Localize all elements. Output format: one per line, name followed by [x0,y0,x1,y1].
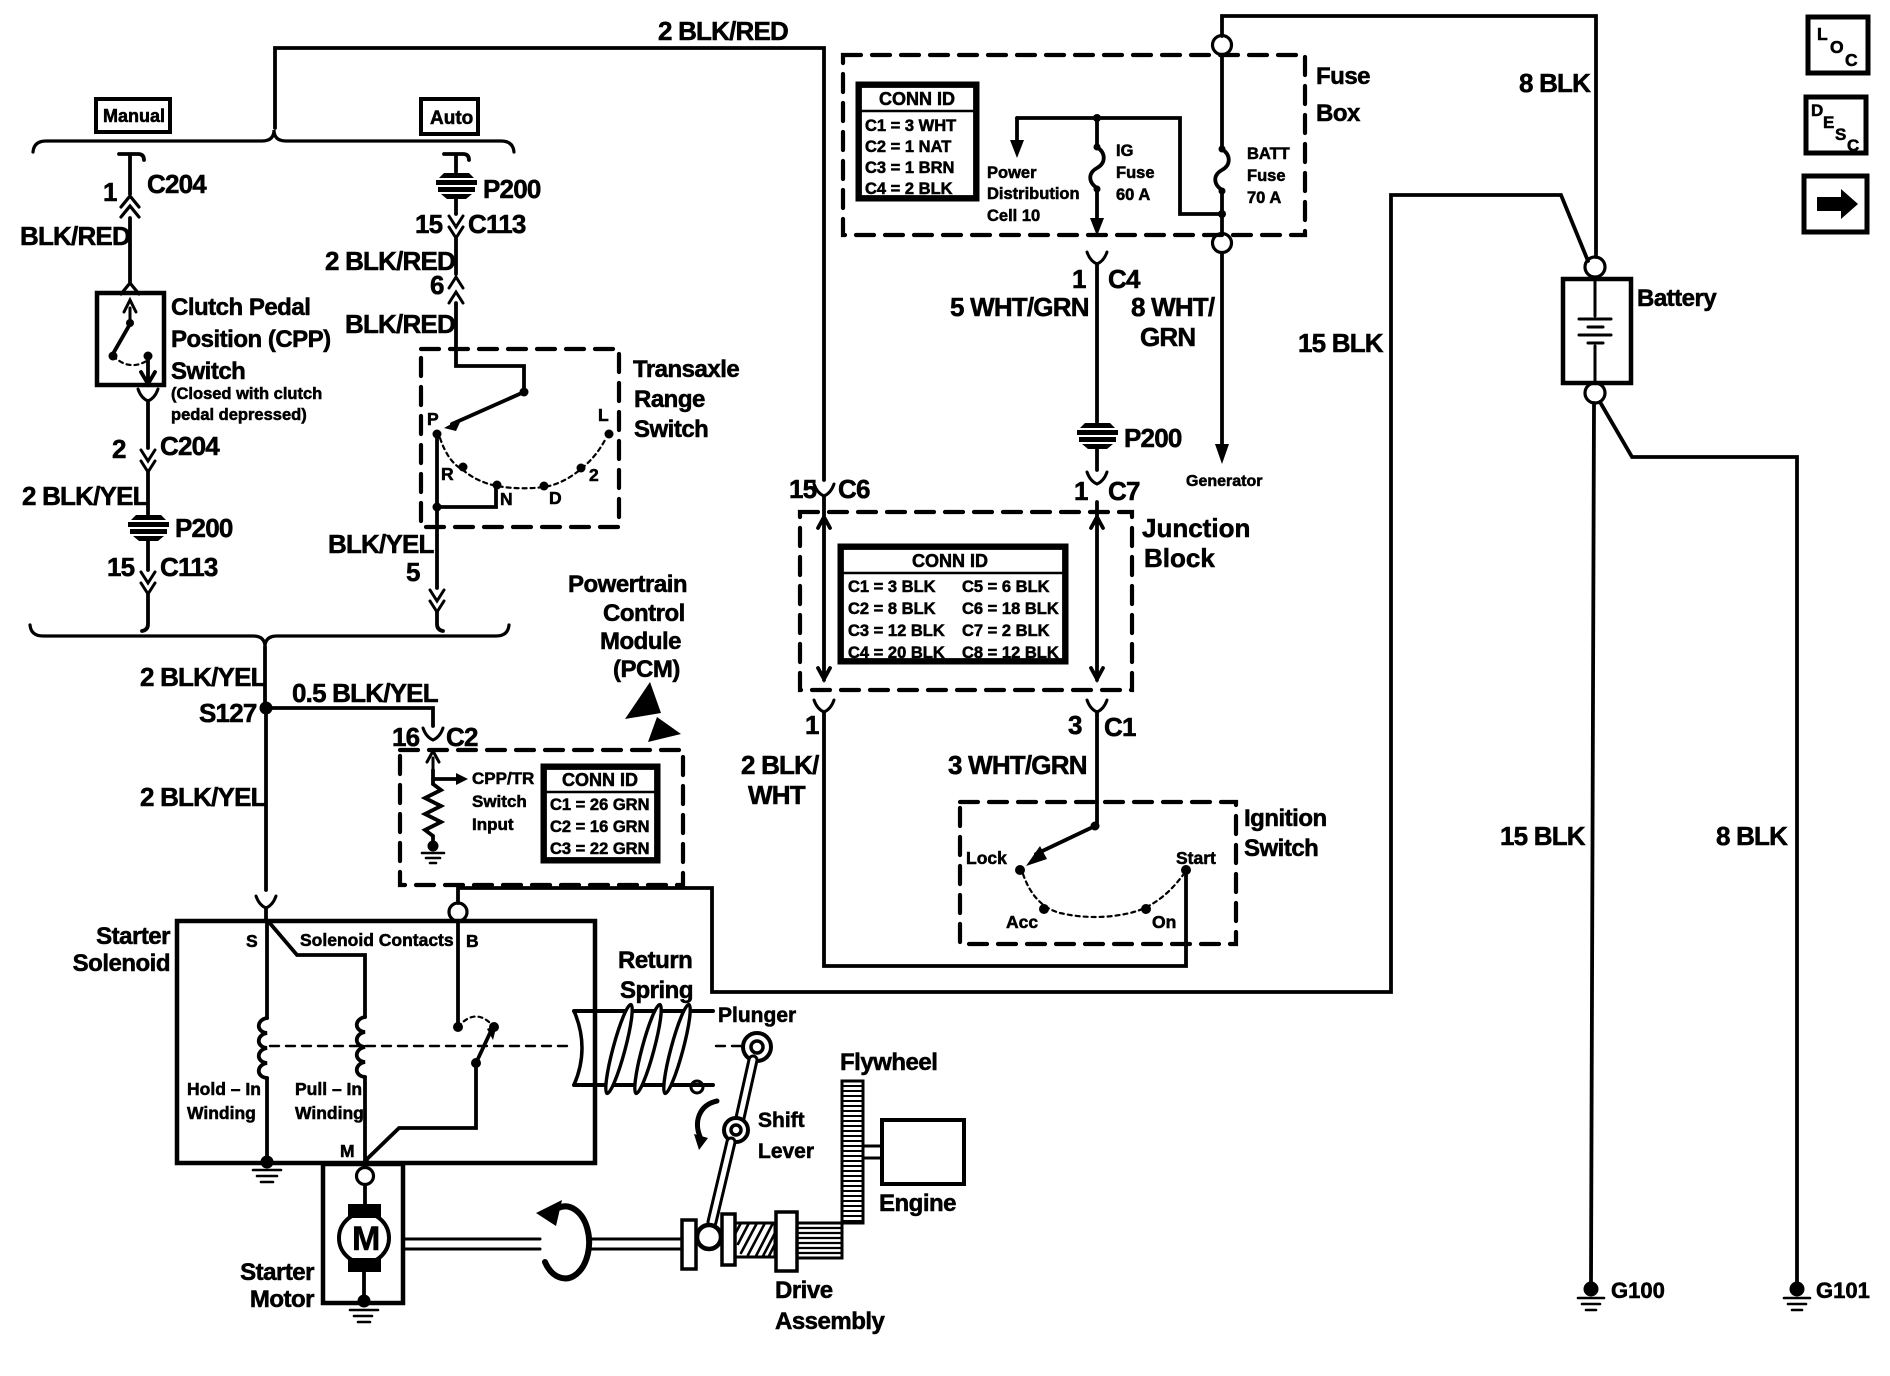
PCM internal ground symbol [422,853,444,863]
svg-text:B: B [466,931,479,951]
wire 0.5 BLK/YEL branch [266,708,433,726]
svg-text:Power: Power [987,164,1037,182]
svg-text:C204: C204 [147,169,207,199]
battery bottom circle [1585,383,1605,403]
svg-text:C6: C6 [838,474,870,504]
svg-text:BLK/RED: BLK/RED [20,221,130,251]
svg-text:CONN ID: CONN ID [912,551,988,571]
svg-text:8 BLK: 8 BLK [1716,821,1788,851]
svg-text:O: O [1830,37,1844,57]
pull-in winding to M [363,1077,367,1161]
svg-text:Lever: Lever [758,1140,814,1163]
svg-text:15 BLK: 15 BLK [1500,821,1586,851]
svg-text:M: M [352,1220,380,1258]
svg-text:1: 1 [805,710,819,740]
svg-text:Block: Block [1144,543,1215,573]
pull-in winding coil [357,1017,365,1077]
svg-text:Switch: Switch [1244,835,1318,862]
B terminal wire to fixed contact [456,921,460,1022]
CPP switch right contact dot [144,352,153,361]
label Ignition Switch [1244,805,1327,862]
label Powertrain Control Module (PCM) [568,571,687,683]
svg-text:IG: IG [1116,142,1133,160]
wire BLK/RED into transaxle range switch [456,303,524,388]
junction dot on P output [433,503,442,512]
solenoid plunger dashed centerline [270,1045,744,1047]
svg-text:Plunger: Plunger [718,1004,796,1027]
label Drive Assembly [775,1277,886,1335]
svg-text:L: L [1817,24,1828,44]
motor brush lower [348,1258,381,1272]
wire into lower brace [142,594,148,631]
Manual option box [96,99,170,132]
drive collar right [722,1214,735,1265]
DESC page icon [1806,97,1866,155]
svg-text:Switch: Switch [634,416,708,443]
svg-text:Drive: Drive [775,1277,833,1304]
wire 2 BLK/WHT [824,712,1186,966]
terminal Lock dot [1015,865,1025,875]
terminal Acc dot [1039,904,1049,914]
junction block left pass-through wire [818,496,830,680]
drive collar left [682,1220,696,1269]
connector C113 pin 15 arrows (Manual) [141,572,155,594]
chevrons at CPP box entry [121,283,139,294]
svg-text:15 BLK: 15 BLK [1298,328,1384,358]
svg-text:5: 5 [406,557,420,587]
svg-text:Powertrain: Powertrain [568,571,687,598]
svg-text:C: C [1847,136,1859,155]
svg-text:C7: C7 [1108,476,1140,506]
svg-text:8 WHT/: 8 WHT/ [1131,292,1215,322]
label CPP/TR Switch Input [472,769,534,834]
label Power Distribution Cell 10 [987,164,1080,225]
connector pin 5 arrows [430,590,444,612]
svg-text:C2 = 16 GRN: C2 = 16 GRN [550,818,650,836]
svg-text:Spring: Spring [620,977,693,1004]
svg-text:15: 15 [107,552,135,582]
wire 2 BLK/YEL from brace to S127 [263,647,267,702]
hold-in winding to ground [265,1078,269,1162]
svg-text:1: 1 [103,177,117,207]
label IG Fuse 60 A [1116,142,1155,204]
svg-text:Position (CPP): Position (CPP) [171,326,331,353]
wire below grommet (Auto) [454,199,458,214]
svg-text:C1: C1 [1104,712,1136,742]
svg-text:C113: C113 [160,552,218,582]
CPP switch left contact dot [109,352,118,361]
svg-text:Module: Module [600,628,681,655]
svg-text:Control: Control [603,600,685,627]
pivot rotation arrow [698,1101,717,1139]
solenoid case ground dot [261,1156,274,1169]
svg-text:(Closed with clutch: (Closed with clutch [171,385,322,403]
M terminal circle [357,1168,374,1185]
svg-text:Winding: Winding [187,1103,256,1123]
grommet P200 (Auto branch) [436,173,477,199]
label Junction Block [1142,513,1250,573]
connector C204 pin 2 female end [138,389,158,401]
wire battery feed into BATT fuse [1220,55,1224,146]
svg-text:L: L [598,405,609,425]
wire 3 WHT/GRN [1095,712,1099,826]
label Return Spring [618,947,693,1004]
shift lever upper arm [740,1060,753,1118]
svg-text:Switch: Switch [171,358,245,385]
motor ground dot [358,1295,371,1308]
wire 5 WHT/GRN [1095,264,1099,422]
svg-text:2 BLK/YEL: 2 BLK/YEL [140,662,267,692]
flywheel to engine shaft [863,1146,882,1158]
label Shift Lever [758,1109,814,1163]
svg-text:Starter: Starter [96,923,170,950]
shaft rotation arrow [545,1206,589,1278]
wire 2 BLK/YEL below CPP [146,401,150,448]
return spring coils [601,1003,694,1095]
label BATT Fuse 70 A [1247,145,1290,207]
svg-text:C113: C113 [468,209,526,239]
svg-text:Return: Return [618,947,692,974]
connector C6 pin 15 female end [814,484,834,496]
connector C4 pin 1 female end [1087,252,1107,264]
label Starter Motor [240,1259,314,1313]
solenoid ground symbol [253,1170,281,1182]
svg-text:1: 1 [1074,476,1088,506]
fuse BATT 70A element [1215,149,1229,190]
Auto option box [421,99,478,134]
svg-text:Box: Box [1316,100,1361,127]
options brace (Manual/Auto bus) [33,130,514,152]
svg-text:Junction: Junction [1142,513,1250,543]
svg-text:3 WHT/GRN: 3 WHT/GRN [948,750,1087,780]
svg-text:E: E [1823,113,1834,132]
movable contact arm with arrow [476,1033,490,1063]
plunger pivot circle [743,1033,771,1061]
hold-in winding coil [259,1018,267,1078]
fuse box internal bus wire [1017,118,1219,214]
IG fuse output arrow through box bottom [1095,189,1099,218]
svg-text:Solenoid Contacts: Solenoid Contacts [300,930,454,950]
ignition switch wiper dot [1091,822,1100,831]
fuse IG 60A element [1095,118,1099,144]
terminal N dot [493,481,502,490]
svg-text:0.5 BLK/YEL: 0.5 BLK/YEL [292,678,439,708]
wire BLK/YEL out of transaxle switch [435,507,439,588]
shift lever pivot circle [724,1118,748,1142]
svg-text:C204: C204 [160,431,220,461]
svg-text:C1 = 3 BLK: C1 = 3 BLK [848,578,936,596]
connector pin 6 chevrons [449,277,463,303]
engine block [882,1120,964,1184]
CPP switch dashed travel arc [113,356,148,365]
next-page arrow icon [1804,176,1867,232]
terminal P dot [433,430,442,439]
connector female end at solenoid S [256,896,276,908]
drive helix spline [735,1223,775,1257]
wire to grommet P200 [146,472,150,514]
svg-text:C1 = 3 WHT: C1 = 3 WHT [865,117,956,135]
svg-text:Battery: Battery [1637,285,1717,312]
svg-text:2 BLK/: 2 BLK/ [741,750,819,780]
grommet P200 (Manual branch) [128,515,169,541]
svg-text:GRN: GRN [1140,322,1195,352]
svg-text:2 BLK/YEL: 2 BLK/YEL [22,481,149,511]
svg-text:2 BLK/RED: 2 BLK/RED [658,16,788,46]
hold-in winding wire [265,921,269,1018]
battery case [1563,279,1631,383]
grommet P200 (WHT/GRN wire) [1077,423,1118,449]
svg-text:Cell 10: Cell 10 [987,207,1040,225]
svg-text:M: M [340,1141,355,1161]
svg-text:Start: Start [1176,848,1216,868]
svg-text:3: 3 [1068,710,1082,740]
battery top circle [1585,257,1605,277]
BATT fuse output junction dot [1218,210,1226,218]
S feed to windings [268,921,365,1017]
svg-text:2: 2 [112,434,126,464]
connector pin 1 lower female end [814,700,834,712]
svg-text:Hold – In: Hold – In [187,1079,261,1099]
CPP switch internal: input arrow [124,300,136,324]
svg-text:C2 = 1 NAT: C2 = 1 NAT [865,138,951,156]
svg-text:2: 2 [589,465,599,485]
return spring body [574,1011,713,1085]
svg-text:Fuse: Fuse [1316,63,1370,90]
svg-text:CONN ID: CONN ID [562,770,638,790]
svg-text:C2 = 8 BLK: C2 = 8 BLK [848,600,936,618]
connector C1 pin 3 female end [1087,700,1107,712]
connector C204 pin 2 arrows [141,450,155,472]
svg-text:BATT: BATT [1247,145,1290,163]
svg-text:G101: G101 [1816,1278,1870,1303]
wire 2 BLK/RED (top feed from junction block C6 to Manual/Auto brace) [275,48,824,480]
connector C204 chevrons [121,196,139,217]
svg-text:Flywheel: Flywheel [840,1049,937,1076]
svg-text:P200: P200 [1124,423,1182,453]
svg-text:C4 = 20 BLK: C4 = 20 BLK [848,644,945,662]
svg-text:Manual: Manual [103,106,165,126]
svg-text:16: 16 [392,722,420,752]
ground G100 [1578,1282,1604,1311]
PCM internal node to CPP/TR input arrow [433,777,456,781]
svg-text:60 A: 60 A [1116,186,1150,204]
ignition dashed travel arc [1023,874,1183,917]
flywheel ring gear [842,1081,863,1223]
motor ground symbol [350,1310,378,1322]
PCM input wire with arrow [427,751,439,770]
clutch pedal position switch box [97,293,164,385]
svg-text:P: P [427,409,439,429]
ESD sensitivity symbol [625,682,681,742]
fuse box dashed border [843,55,1305,235]
wire BLK/RED to CPP switch [128,218,132,282]
terminal On dot [1141,904,1151,914]
wire below grommet to C7 [1095,449,1099,470]
svg-text:Distribution: Distribution [987,185,1080,203]
fuse box CONN ID table [858,84,977,199]
svg-text:Fuse: Fuse [1116,164,1155,182]
svg-text:S: S [1835,125,1846,144]
svg-text:8 BLK: 8 BLK [1519,68,1591,98]
svg-text:C4: C4 [1108,264,1141,294]
svg-text:Generator: Generator [1186,473,1262,490]
wire from P to N jumper [437,434,496,507]
shift lever ball end [697,1225,721,1249]
splice S127 dot [260,702,273,715]
svg-text:C4 = 2 BLK: C4 = 2 BLK [865,180,953,198]
connector terminal bar (Auto branch) [444,154,469,160]
svg-text:Motor: Motor [250,1286,314,1313]
PCM pull-up resistor [425,770,441,842]
svg-text:C8 = 12 BLK: C8 = 12 BLK [962,644,1059,662]
motor wire to ground [362,1272,366,1298]
svg-text:C3 = 12 BLK: C3 = 12 BLK [848,622,945,640]
wire pin5 into lower brace [437,612,443,631]
svg-text:C5 = 6 BLK: C5 = 6 BLK [962,578,1050,596]
B terminal circle [449,903,467,921]
PCM CONN ID table [543,766,658,861]
transaxle switch rotor dot [520,388,529,397]
svg-text:CONN ID: CONN ID [879,89,955,109]
fixed contact dot (B) [453,1022,463,1032]
svg-text:P200: P200 [175,513,233,543]
svg-text:Transaxle: Transaxle [633,356,739,383]
svg-text:Winding: Winding [295,1103,364,1123]
label 8 WHT/GRN [1131,292,1215,352]
junction dot at IG fuse tap [1093,114,1101,122]
svg-text:Switch: Switch [472,792,527,811]
return spring end circle [691,1081,703,1093]
svg-text:P200: P200 [483,174,541,204]
wire BLK/RED (Manual branch upper) [128,156,132,194]
svg-text:1: 1 [1072,264,1086,294]
label Transaxle Range Switch [633,356,739,443]
svg-text:On: On [1152,912,1176,932]
svg-text:S127: S127 [199,698,257,728]
connector C7 pin 1 female end [1087,472,1107,484]
svg-text:Pull – In: Pull – In [295,1079,362,1099]
wire 8 BLK battery negative to G101 [1600,402,1797,1282]
label 2 BLK/WHT [741,750,819,810]
label Hold-In Winding [187,1079,261,1123]
starter motor box [323,1164,403,1303]
svg-text:G100: G100 [1611,1278,1665,1303]
drive pinion hub [776,1212,797,1271]
svg-text:BLK/YEL: BLK/YEL [328,529,435,559]
terminal L dot [605,430,614,439]
wire 15 BLK battery to solenoid B [458,195,1588,992]
shift lever lower arm [712,1142,731,1222]
motor brush upper [348,1204,381,1218]
label Pull-In Winding [295,1079,364,1123]
wire BATT fuse to bottom circle [1220,191,1224,233]
junction block right pass-through wire [1091,502,1103,680]
terminal D dot [540,482,549,491]
CPP switch movable arm [114,324,130,352]
LOC page icon [1808,17,1868,73]
motor armature circle [339,1213,389,1263]
junction block CONN ID table [840,546,1066,662]
contact arm lower dot [471,1058,481,1068]
transaxle switch wiper arrow to P [452,392,524,424]
svg-text:C1 = 26 GRN: C1 = 26 GRN [550,796,650,814]
PCM dashed box [400,750,683,885]
svg-text:(PCM): (PCM) [613,656,680,683]
terminal R dot [459,463,468,472]
svg-text:Solenoid: Solenoid [73,950,170,977]
wire 2 BLK/YEL down to starter solenoid S [264,708,268,890]
svg-text:15: 15 [789,474,817,504]
power distribution feed arrow [1015,118,1019,140]
wire 8 BLK battery to fuse box [1222,16,1596,257]
BATT fuse bottom circle [1213,234,1232,253]
svg-text:Lock: Lock [966,848,1007,868]
svg-text:D: D [1811,101,1823,120]
svg-text:Clutch Pedal: Clutch Pedal [171,294,310,321]
svg-text:5 WHT/GRN: 5 WHT/GRN [950,292,1089,322]
contact arm wire to M [366,1063,476,1160]
svg-text:C6 = 18 BLK: C6 = 18 BLK [962,600,1059,618]
connector C113 pin 15 arrows (Auto) [449,216,463,238]
M junction on case [365,1159,367,1163]
junction block dashed border [800,512,1132,690]
svg-text:Auto: Auto [430,108,473,129]
label Fuse Box [1316,63,1370,127]
label Clutch Pedal Position (CPP) Switch [171,294,331,424]
svg-text:C3 = 22 GRN: C3 = 22 GRN [550,840,650,858]
motor shaft [405,1239,682,1249]
wire into solenoid S terminal [264,908,268,921]
svg-text:N: N [500,489,513,509]
lower options brace [30,625,509,647]
ignition switch wiper arrow to Lock [1036,826,1095,854]
PCM internal ground dot [428,841,439,852]
svg-text:pedal depressed): pedal depressed) [171,406,307,424]
svg-text:70 A: 70 A [1247,189,1281,207]
transaxle range switch dashed box [421,349,619,527]
svg-text:WHT: WHT [748,780,806,810]
svg-text:C2: C2 [446,722,478,752]
wire Auto branch to grommet [454,156,458,172]
connector C204 pin 1 (terminal bar) [119,154,144,160]
svg-text:S: S [246,931,258,951]
motor M wire upper [363,1185,367,1206]
battery internal cells [1579,281,1611,381]
wire 15 BLK battery negative to G100 [1591,403,1594,1282]
svg-text:Input: Input [472,815,514,834]
svg-text:Shift: Shift [758,1109,805,1132]
CPP switch output arrow through box bottom [141,358,155,384]
wire 2 BLK/RED (Auto) [454,238,458,274]
ignition switch dashed box [960,802,1236,944]
CPP switch arm pivot dot [126,319,134,327]
connector C2 pin 16 symbol [423,728,443,740]
svg-text:Fuse: Fuse [1247,167,1286,185]
svg-text:2 BLK/YEL: 2 BLK/YEL [140,782,267,812]
svg-text:D: D [549,488,562,508]
svg-text:Engine: Engine [879,1190,956,1217]
svg-text:BLK/RED: BLK/RED [345,309,455,339]
drive pinion gear [797,1223,842,1258]
svg-text:6: 6 [430,270,444,300]
svg-text:15: 15 [415,209,443,239]
movable contact dot [489,1022,499,1032]
wire below grommet [146,541,150,570]
terminal 2 dot [577,464,586,473]
svg-text:C3 = 1 BRN: C3 = 1 BRN [865,159,954,177]
ground G101 [1784,1282,1810,1311]
svg-text:R: R [441,464,454,484]
